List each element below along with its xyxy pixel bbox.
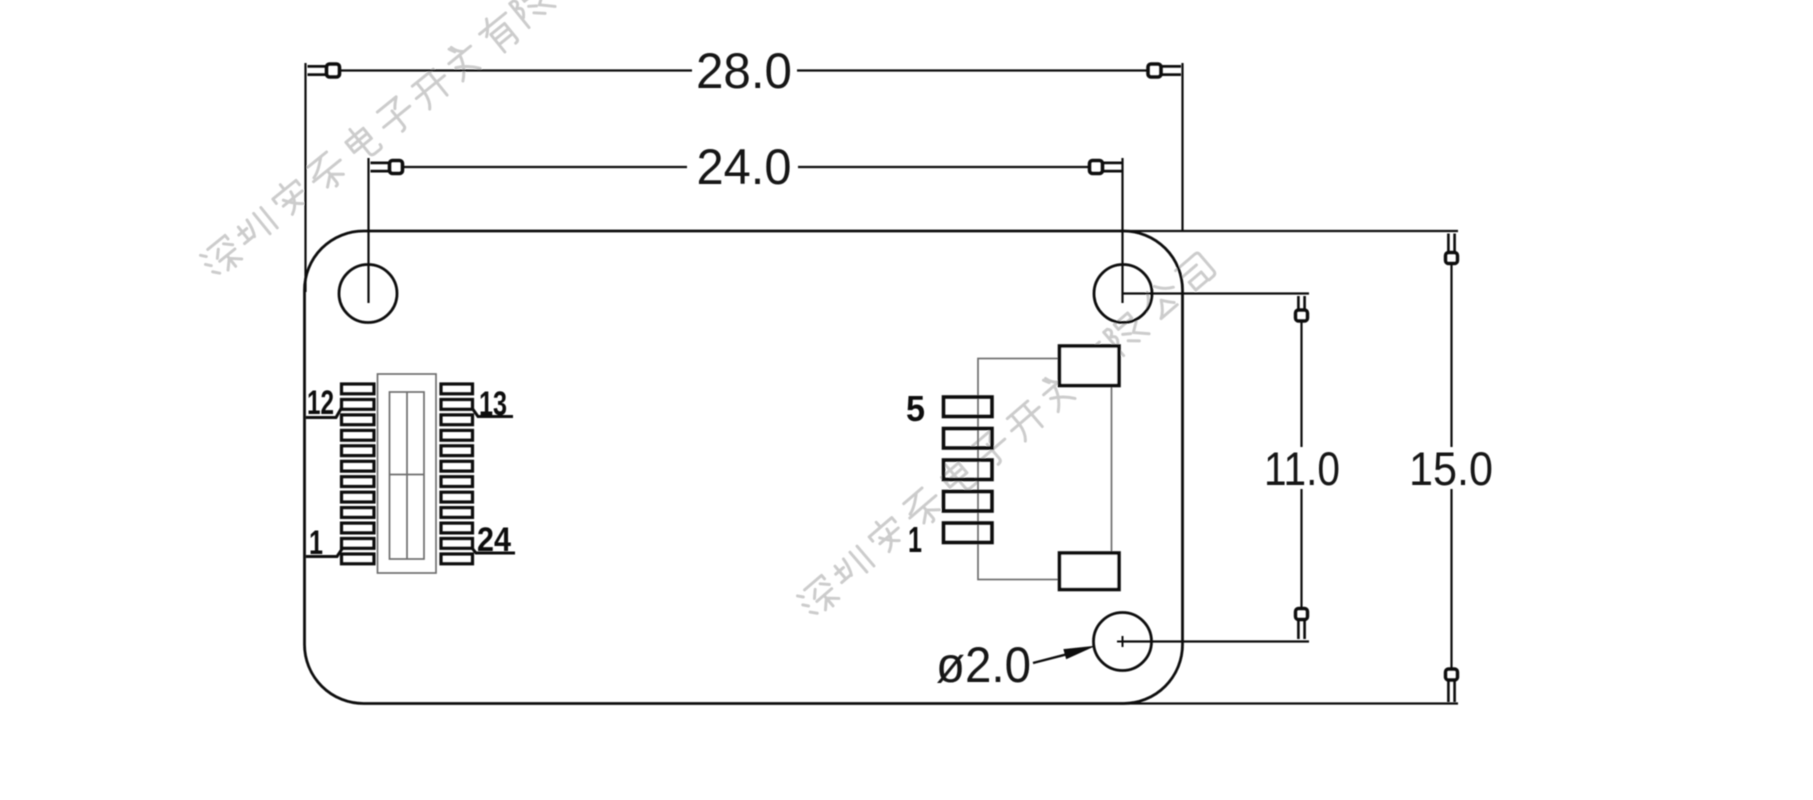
dim 28.0 line	[339, 69, 1148, 71]
dim 15.0 ext top	[1120, 230, 1458, 232]
svg-text:15.0: 15.0	[1409, 442, 1493, 495]
pin label 12	[306, 384, 342, 422]
dim 11.0 ext top	[1123, 292, 1309, 294]
svg-text:ø2.0: ø2.0	[936, 637, 1031, 693]
hole top-right	[1094, 265, 1152, 323]
right connector pads	[944, 397, 993, 543]
svg-text:24.0: 24.0	[697, 139, 792, 195]
right connector pad top	[1060, 346, 1120, 386]
pin label 24	[472, 521, 515, 559]
watermark band A	[196, 0, 626, 282]
svg-text:1: 1	[908, 519, 922, 560]
left connector pads right column	[441, 384, 473, 564]
svg-text:11.0: 11.0	[1264, 442, 1340, 495]
pin label 13	[472, 385, 513, 423]
dim 11.0 line	[1300, 322, 1302, 608]
terminator 11.0 bottom	[1296, 609, 1308, 640]
terminator 24.0 right	[1090, 161, 1123, 174]
pin label 1 left	[306, 524, 342, 562]
left connector body	[378, 374, 437, 573]
board outline	[305, 231, 1183, 704]
terminator 28.0 left	[308, 64, 340, 77]
svg-text:5: 5	[906, 388, 925, 429]
svg-text:28.0: 28.0	[696, 43, 792, 99]
dim 28.0 ext right	[1181, 63, 1183, 231]
dim 28.0 ext left	[304, 63, 306, 292]
watermark band B	[793, 249, 1220, 622]
dim 15.0 ext bottom	[1120, 702, 1458, 704]
hole bottom	[1094, 613, 1152, 671]
left connector pads left column	[342, 384, 375, 564]
terminator 11.0 top	[1296, 296, 1308, 321]
dim 15.0 line	[1450, 264, 1452, 668]
hole top-left	[339, 265, 397, 323]
leader dia2.0	[1033, 647, 1093, 664]
hole bottom center mark	[1117, 636, 1128, 647]
dim 24.0 ext right	[1121, 158, 1123, 303]
terminator 15.0 top	[1446, 234, 1458, 264]
dim 24.0 ext left	[367, 158, 369, 303]
dim 24.0 line	[402, 166, 1089, 168]
right connector outline	[978, 359, 1112, 580]
terminator 24.0 left	[371, 161, 403, 174]
right connector pad bottom	[1060, 553, 1120, 590]
terminator 15.0 bottom	[1446, 669, 1458, 702]
terminator 28.0 right	[1148, 64, 1181, 77]
dim 11.0 ext bottom	[1123, 640, 1310, 642]
